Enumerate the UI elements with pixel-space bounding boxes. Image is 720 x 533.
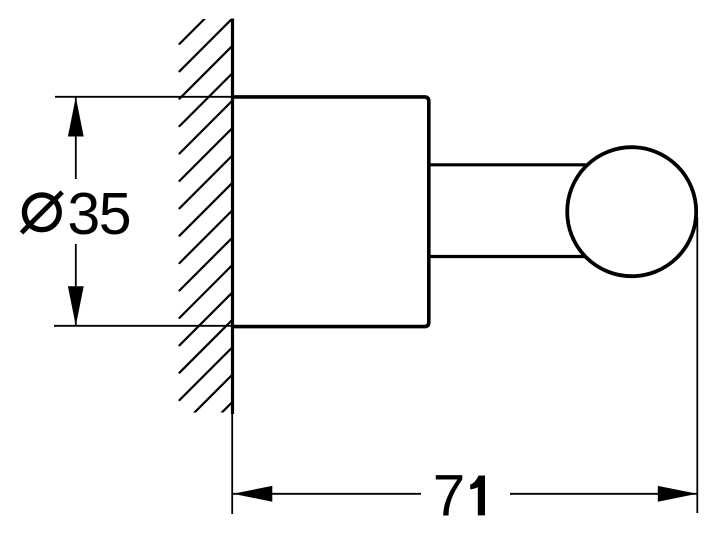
extension line top (diameter) — [55, 96, 233, 98]
extension line right (71) — [696, 217, 698, 513]
dimension line horizontal (71) — [233, 493, 421, 495]
wall face line — [231, 19, 234, 415]
label 71 digit 1 — [470, 476, 485, 516]
dimension line vertical (Ø35) — [75, 97, 77, 179]
hook rod bottom line — [429, 255, 586, 258]
arrowhead up — [68, 97, 84, 137]
label Ø35 diameter symbol — [22, 192, 63, 233]
svg-text:35: 35 — [67, 181, 130, 247]
hook base cylinder — [233, 97, 429, 327]
hook rod top line — [429, 163, 586, 166]
arrowhead down — [68, 286, 84, 326]
arrowhead left — [233, 486, 272, 502]
extension line left (71) — [231, 414, 233, 514]
arrowhead right — [658, 486, 698, 502]
extension line bottom (diameter) — [54, 325, 233, 327]
svg-text:7: 7 — [433, 464, 466, 529]
hook sphere — [567, 147, 696, 276]
wall hatching — [180, 0, 233, 455]
